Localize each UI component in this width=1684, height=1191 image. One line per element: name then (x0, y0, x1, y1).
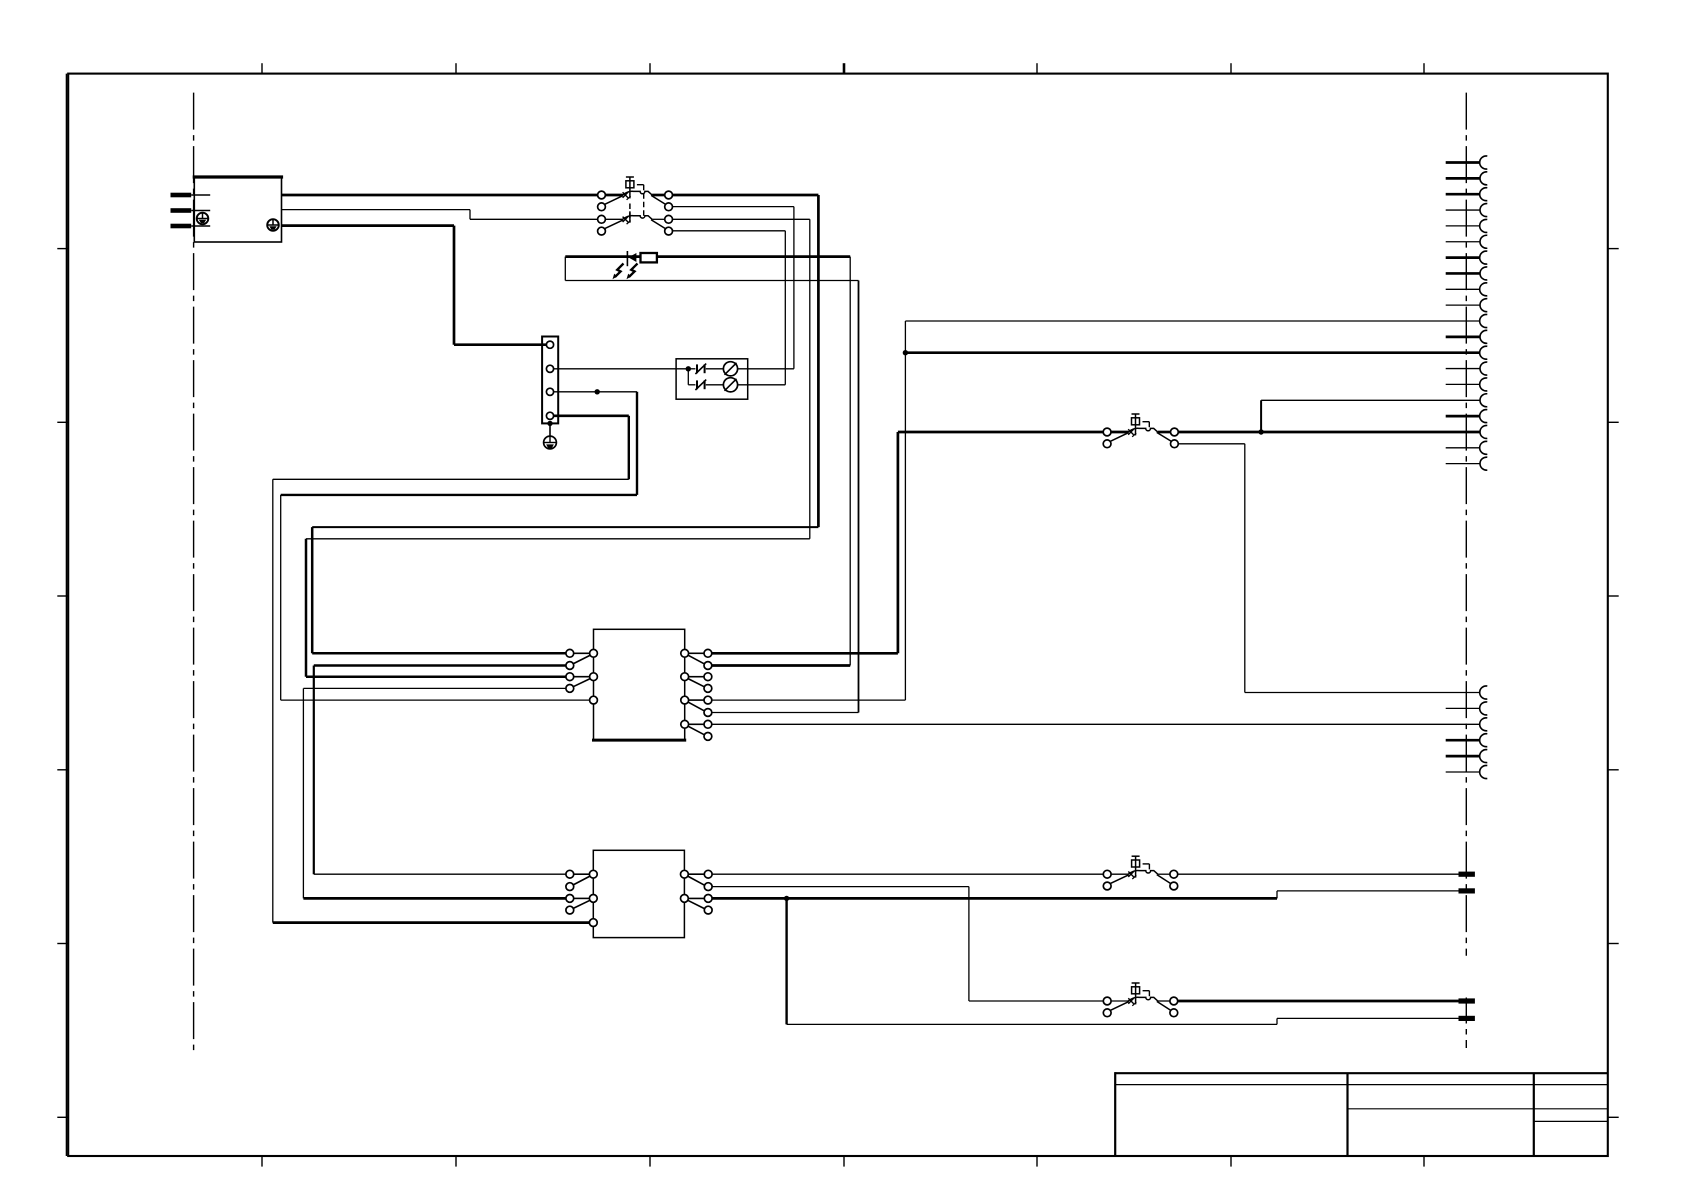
wire: X2 row B to LED branch (712, 664, 850, 667)
wire: LED branch to X2 row B (849, 257, 851, 666)
ground symbol (X0 right) (267, 219, 279, 231)
wire: lamp H2 to Q1 aux (738, 384, 786, 386)
circuit breaker Q1 (2-pole thermal) (598, 177, 673, 235)
wire: X2 row A to breaker Q2 input (712, 432, 1103, 653)
wire: X3 row a to breaker Q3 input (712, 873, 1103, 875)
circuit breaker Q3 (thermal) (1103, 856, 1177, 890)
connector XP1 pin 20 (1446, 457, 1488, 470)
connector XP2 pin 3 (1480, 718, 1488, 731)
blade terminal 1 (1459, 872, 1475, 877)
connector X2 (566, 629, 712, 740)
junction on X3 row c wire (784, 896, 789, 901)
connector XP2 pin 5 (1446, 750, 1488, 763)
wire: Q1 pole 2 output to X2 pin row C (306, 219, 810, 676)
wire: junction riser to connector pin 16 (1261, 400, 1480, 432)
blade terminal 3 (1459, 998, 1475, 1003)
connector XP1 pin 15 (1446, 378, 1488, 391)
wire PE: X0 to terminal strip X1 (282, 226, 547, 345)
wire: X1 terminal 3 to X2 bottom-left pin (281, 392, 637, 700)
connector XP1 pin 14 (1446, 362, 1488, 375)
wire: X2 row E to connector pin 11/13 riser (712, 321, 1480, 700)
blade terminal 4 (1459, 1016, 1475, 1021)
connector XP1 pin 12 (1446, 330, 1488, 343)
contact switch S2 (lamp H2 branch) (688, 380, 723, 390)
wire: X3 row c to blade terminal 2 (712, 891, 1459, 899)
wire: junction down to blade terminal 4 (787, 898, 1459, 1024)
connector XP1 pin 4 (1446, 204, 1488, 217)
connector XP1 pin 16 (1480, 394, 1487, 407)
wire: junction to connector pin 13 (905, 351, 1480, 354)
contact switch S1 (lamp H1 branch) (688, 364, 723, 374)
junction on pin 11/13 riser (903, 350, 908, 355)
resistor R1 (641, 253, 657, 262)
wire: LED branch return loop (565, 257, 858, 281)
wire: X2 link to X3 (row D to X3 row c) (303, 688, 566, 898)
connector XP1 pin 18 (1480, 425, 1487, 438)
ground symbol (X1 earth) (544, 436, 557, 449)
wire: X2 row F to LED return (712, 712, 859, 714)
junction on X1 terminal 3 wire (595, 389, 600, 394)
wire: Q1 pole 1 output to X2 pin row A (312, 195, 818, 653)
wire: Q2 aux to connector XP2 pin 1 (1178, 444, 1480, 693)
connector XP2 pin 2 (1446, 702, 1488, 715)
wire: lamp branch split (687, 369, 689, 385)
power inlet module X0 (171, 177, 284, 242)
wire: X1 terminal 4 to X3 bottom-left pin (273, 416, 629, 923)
wire: X3 row b to breaker Q4 input (712, 887, 1103, 1001)
connector XP1 pin 19 (1446, 441, 1488, 454)
indicator lamp unit enclosure A1 (676, 359, 748, 399)
connector XP1 pin 2 (1446, 172, 1488, 185)
connector XP1 pin 3 (1446, 188, 1488, 201)
connector XP1 pin 11 (1480, 315, 1488, 328)
connector XP1 pin 8 (1446, 267, 1488, 280)
connector XP2 pin 1 (1480, 686, 1488, 699)
connector XP2 pin 6 (1446, 766, 1488, 779)
wire: Q3 output to blade terminal 1 (1177, 873, 1459, 875)
connector XP2 pin 4 (1446, 734, 1488, 747)
connector XP1 pin 6 (1446, 235, 1488, 248)
wire: X2 link to X3 (row B to X3 row a) (314, 666, 566, 875)
wire: Q1 aux contact to lamp H1 (672, 207, 794, 369)
dash-dot boundary line (left panel edge) (193, 93, 195, 1053)
circuit breaker Q2 (thermal) (1103, 414, 1178, 448)
ground symbol (X0 left) (197, 213, 209, 225)
wire: LED return to X2 row F (858, 281, 860, 713)
junction in lamp unit (686, 366, 691, 371)
connector X3 (566, 850, 712, 937)
junction at pin 16 riser (1258, 429, 1263, 434)
lamp H2 (723, 378, 737, 392)
circuit breaker Q4 (thermal) (1103, 983, 1177, 1017)
dash-dot boundary line (right connector edge) (1465, 93, 1467, 1048)
connector XP1 pin 13 (1480, 346, 1488, 359)
connector XP1 pin 10 (1446, 299, 1488, 312)
wire: Q1 aux contact to lamp H2 (672, 231, 785, 385)
wire L1: X0 to Q1 pole 1 (282, 194, 599, 197)
LED D1 (613, 251, 638, 279)
wire N: X0 to Q1 pole 2 (stepped) (282, 210, 599, 220)
wire: X1 terminal 2 to lamp unit (554, 368, 689, 370)
wire: Q2 output to connector pin 18 (1178, 431, 1480, 434)
wire: LED branch top (anode side) (565, 255, 850, 258)
terminal strip X1 (542, 337, 558, 437)
wire: Q4 output to blade terminal 3 (1177, 1000, 1459, 1003)
lamp H1 (723, 362, 737, 376)
connector XP1 pin 9 (1446, 283, 1488, 296)
connector XP1 pin 7 (1446, 251, 1488, 264)
connector XP1 pin 5 (1446, 219, 1488, 232)
connector XP1 pin 1 (1446, 156, 1488, 169)
wire: lamp H1 to Q1 aux (738, 368, 794, 370)
connector XP1 pin 17 (1446, 410, 1488, 423)
wire: X2 row G to connector XP2 pin 3 (712, 723, 1480, 725)
blade terminal 2 (1459, 888, 1475, 893)
